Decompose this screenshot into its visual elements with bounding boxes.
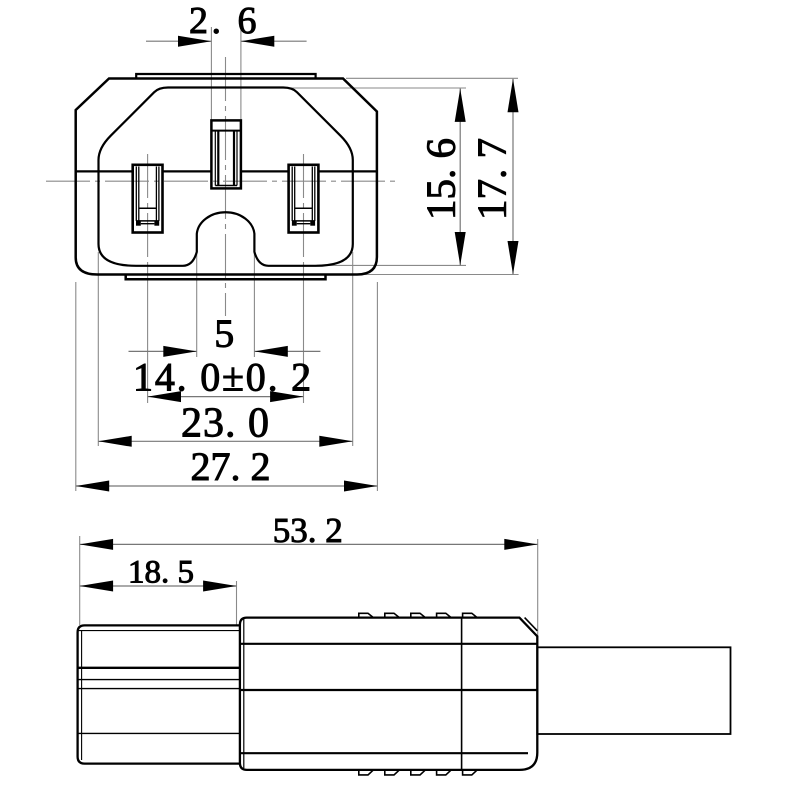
earth pin hole thin walls	[215, 131, 237, 186]
arrow 18.5 left	[80, 581, 113, 592]
dim line 18.5	[80, 585, 237, 587]
arrow 14.0 right	[270, 391, 303, 402]
centerline horizontal (body axis)	[46, 180, 397, 182]
extension line left end (53.2/18.5)	[79, 536, 81, 625]
svg-text:23. 0: 23. 0	[181, 401, 270, 447]
top mounting lip	[136, 74, 315, 78]
arrow 5 right	[254, 346, 287, 357]
cable boot block	[78, 625, 240, 763]
extension line inner contour right (23.0)	[352, 252, 354, 446]
main body vertical parting line	[461, 618, 463, 770]
svg-text:5: 5	[214, 311, 234, 356]
extension line bell left (5)	[196, 248, 198, 357]
arrow 5 left	[163, 346, 196, 357]
extension line outer bottom (17.7)	[358, 274, 519, 276]
grip ribs top	[359, 613, 477, 617]
extension line inner contour left (23.0)	[97, 252, 99, 446]
arrow 53.2 right	[504, 539, 537, 550]
extension line inner contour bottom (15.6)	[317, 264, 466, 266]
outer body outline	[76, 79, 377, 275]
svg-text:17. 7: 17. 7	[469, 138, 515, 220]
svg-text:14. 0±0. 2: 14. 0±0. 2	[133, 355, 313, 400]
extension line earth slot right (2.6)	[240, 27, 242, 120]
dim line 2.6	[146, 40, 307, 42]
centerline left pin axis	[147, 154, 149, 260]
extension line boot right (18.5)	[236, 581, 238, 626]
arrow 2.6 left	[178, 36, 211, 47]
arrow 15.6 bottom	[455, 232, 466, 265]
arrow 17.7 bottom	[508, 241, 519, 274]
inner recess contour with earth bell	[99, 88, 353, 266]
extension line inner contour top (15.6)	[286, 87, 466, 89]
arrow 27.2 right	[344, 481, 377, 492]
dim line 14.0	[148, 396, 304, 398]
extension line bell right (5)	[253, 248, 255, 357]
arrow 17.7 top	[508, 79, 519, 112]
svg-text:18. 5: 18. 5	[128, 555, 194, 591]
dim line 27.2	[76, 485, 378, 487]
extension line outer body left (27.2)	[75, 282, 77, 491]
centerline right pin axis	[303, 154, 305, 260]
dim line 53.2	[80, 543, 538, 545]
main body left inner edge	[243, 618, 245, 768]
extension line right pin axis to 14.0 dim	[303, 262, 305, 403]
arrow 27.2 left	[76, 481, 109, 492]
dim line 5	[129, 350, 321, 352]
earth pin hole outer	[211, 120, 241, 188]
extension line body right (53.2)	[537, 539, 539, 638]
extension line left pin axis to 14.0 dim	[147, 262, 149, 403]
extension line earth slot left (2.6)	[210, 27, 212, 120]
arrow 14.0 left	[148, 391, 181, 402]
svg-text:27. 2: 27. 2	[191, 444, 271, 489]
main body block	[240, 618, 537, 770]
dim line 17.7 (vertical)	[512, 79, 514, 275]
extension line outer body right (27.2)	[376, 282, 378, 491]
centerline vertical (earth pin axis)	[225, 57, 227, 316]
svg-text:53. 2: 53. 2	[273, 511, 343, 550]
svg-text:15. 6: 15. 6	[418, 138, 464, 220]
arrow 53.2 left	[80, 539, 113, 550]
dim line 23.0	[98, 440, 352, 442]
arrow 23.0 left	[98, 436, 131, 447]
earth pin hole cap line	[211, 130, 241, 132]
arrow 23.0 right	[319, 436, 352, 447]
grip ribs bottom	[359, 770, 477, 775]
neutral pin (right)	[289, 165, 319, 233]
cable boot ridge lines	[78, 630, 240, 632]
earth pin contact	[218, 131, 234, 186]
cable boot left inner edge	[81, 630, 83, 760]
arrow 2.6 right	[241, 36, 274, 47]
cable tail	[537, 647, 730, 734]
bottom mounting lip	[126, 275, 326, 279]
earth pin contact bottom	[215, 185, 237, 187]
extension line outer top (17.7)	[346, 77, 518, 79]
arrow 15.6 top	[455, 89, 466, 122]
arrow 18.5 right	[203, 581, 236, 592]
recess mid line segments	[76, 170, 376, 172]
main body chamfer inner line	[525, 618, 538, 631]
svg-text:2. 6: 2. 6	[189, 0, 260, 42]
dim line 15.6 (vertical)	[459, 89, 461, 266]
live pin (left)	[133, 165, 163, 233]
main body horizontal lines	[240, 643, 537, 645]
